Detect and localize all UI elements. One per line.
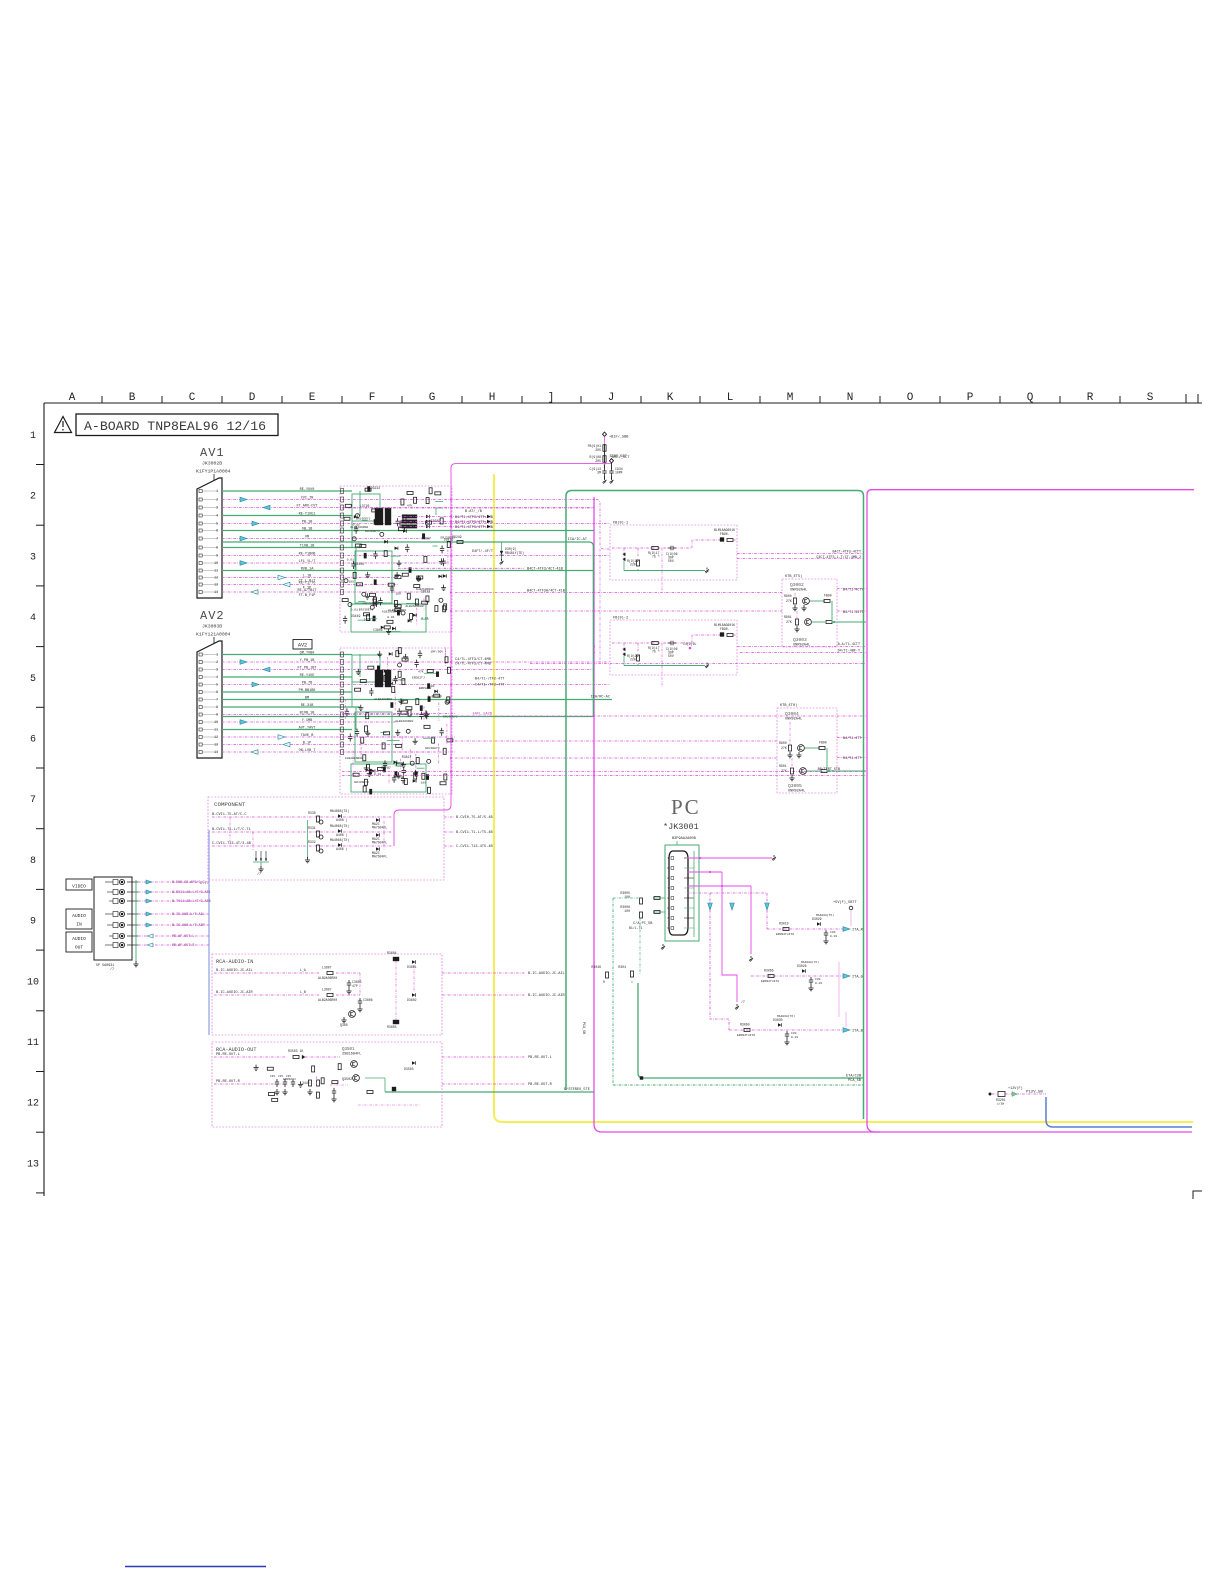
svg-text:R332: R332	[308, 840, 316, 844]
svg-text:OB_1B: OB_1B	[302, 527, 313, 531]
svg-text:ICA/IC-AT: ICA/IC-AT	[568, 537, 588, 542]
svg-text:C3823: C3823	[421, 589, 431, 593]
svg-text:D3106: D3106	[354, 562, 364, 566]
svg-text:9: 9	[216, 554, 218, 558]
svg-text:P12V_5B: P12V_5B	[1026, 1091, 1043, 1095]
svg-text:R331: R331	[308, 826, 316, 830]
svg-text:L_A: L_A	[300, 968, 306, 972]
svg-text:4: 4	[216, 675, 218, 679]
svg-text:F: F	[369, 392, 376, 404]
svg-text:205: 205	[595, 448, 601, 452]
svg-text:ERDS2TJ: ERDS2TJ	[283, 1078, 296, 1081]
svg-text:D3602: D3602	[407, 998, 417, 1002]
svg-text:CVI_IN: CVI_IN	[301, 496, 314, 500]
svg-text:B-TY11-AB-L/T/C-ATB: B-TY11-AB-L/T/C-ATB	[172, 899, 211, 904]
svg-text:PC: PC	[671, 795, 701, 819]
svg-text:27K: 27K	[781, 769, 787, 773]
svg-text:C3606: C3606	[363, 998, 373, 1002]
svg-text:0.01: 0.01	[815, 982, 822, 985]
svg-text:D3503: D3503	[404, 1067, 414, 1071]
svg-text:PB_1B: PB_1B	[302, 520, 313, 524]
svg-text:B-CVI1-T1-L/T/C-T1: B-CVI1-T1-L/T/C-T1	[212, 827, 251, 832]
svg-text:B.AT/_/B: B.AT/_/B	[465, 509, 482, 514]
svg-text:D3029: D3029	[812, 917, 822, 921]
svg-text:13: 13	[214, 743, 218, 747]
svg-text:/7: /7	[741, 1000, 745, 1004]
svg-text:+12V(F): +12V(F)	[1008, 1086, 1023, 1091]
svg-text:IN: IN	[76, 922, 82, 928]
svg-text:K1FY1P1A0004: K1FY1P1A0004	[196, 469, 231, 475]
svg-text:50V: 50V	[668, 559, 674, 563]
svg-text:PB-RE-OUT-L: PB-RE-OUT-L	[216, 1053, 240, 1057]
svg-text:3: 3	[30, 552, 36, 563]
svg-text:0.01: 0.01	[830, 935, 837, 938]
svg-text:3: 3	[667, 897, 669, 900]
svg-text:ERJ3GEYJ: ERJ3GEYJ	[365, 530, 380, 533]
svg-text:A406 |: A406 |	[336, 833, 348, 837]
svg-text:D3449: D3449	[351, 614, 361, 618]
svg-text:R900: R900	[784, 594, 792, 598]
svg-text:Q3003: Q3003	[793, 637, 807, 643]
svg-text:1MF/50V: 1MF/50V	[431, 649, 444, 653]
svg-text:FB90.: FB90.	[720, 627, 730, 631]
svg-text:JK3003B: JK3003B	[202, 624, 222, 630]
svg-text:D: D	[249, 392, 256, 404]
svg-text:ITA_R: ITA_R	[852, 929, 864, 933]
svg-text:1: 1	[216, 489, 218, 493]
svg-text:B-IC-AUDIO-JC-AIL: B-IC-AUDIO-JC-AIL	[528, 972, 565, 976]
svg-text:PB-RE-OUT-R: PB-RE-OUT-R	[216, 1080, 241, 1084]
svg-text:L3442: L3442	[300, 1081, 310, 1085]
svg-text:MA4068(TX): MA4068(TX)	[330, 824, 349, 828]
svg-text:Y.1MB: Y.1MB	[302, 719, 313, 723]
svg-text:AUDIO: AUDIO	[72, 936, 86, 942]
svg-text:S: S	[1147, 392, 1154, 404]
svg-text:100: 100	[624, 909, 630, 913]
svg-text:11: 11	[214, 569, 218, 573]
svg-text:COMPONENT: COMPONENT	[214, 801, 246, 808]
svg-text:KTB_ET0): KTB_ET0)	[780, 703, 797, 708]
svg-text:FT.B_F1P: FT.B_F1P	[299, 594, 316, 598]
svg-text:B: B	[129, 392, 136, 404]
svg-text:PB-RE-OUT-R: PB-RE-OUT-R	[528, 1083, 553, 1087]
svg-text:+5V(F)_5BTT: +5V(F)_5BTT	[833, 900, 858, 905]
svg-text:L3726: L3726	[360, 504, 370, 508]
svg-text:9: 9	[216, 713, 218, 717]
svg-text:R901: R901	[779, 764, 787, 768]
svg-text:100: 100	[395, 592, 401, 595]
svg-text:B-IC-AUB-L/T-AIL: B-IC-AUB-L/T-AIL	[172, 912, 205, 917]
svg-text:14: 14	[214, 590, 218, 594]
svg-text:R3249: R3249	[452, 535, 462, 539]
svg-text:MA7S04FL: MA7S04FL	[372, 826, 387, 830]
svg-text:ICA/RC-AC: ICA/RC-AC	[591, 695, 610, 700]
svg-text:11: 11	[27, 1038, 39, 1049]
svg-text:R3707: R3707	[381, 766, 391, 770]
svg-text:*JK3001: *JK3001	[663, 822, 699, 832]
svg-text:RE-A/TB1T: RE-A/TB1T	[298, 588, 317, 593]
svg-text:B1/L.T1: B1/L.T1	[629, 926, 642, 930]
svg-text:75 ^: 75 ^	[652, 555, 660, 559]
svg-text:Q3005: Q3005	[788, 783, 802, 789]
svg-text:ERDS2TJ470: ERDS2TJ470	[776, 933, 794, 936]
svg-text:LF1_YL/T: LF1_YL/T	[299, 559, 316, 564]
svg-text:ALB2A06R00: ALB2A06R00	[345, 757, 363, 760]
svg-text:1/2W: 1/2W	[997, 1102, 1004, 1106]
svg-text:AV2: AV2	[298, 643, 307, 649]
svg-text:C30: C30	[830, 931, 836, 934]
svg-text:12: 12	[214, 735, 218, 739]
svg-text:9: 9	[667, 927, 669, 930]
svg-text:UNR92A4L: UNR92A4L	[790, 589, 807, 593]
svg-text:RE-Y1UE: RE-Y1UE	[300, 674, 315, 678]
svg-text:/7: /7	[110, 967, 114, 972]
svg-text:B4/T1-/TF2-4TT: B4/T1-/TF2-4TT	[475, 677, 504, 682]
svg-text:8: 8	[216, 546, 218, 550]
svg-text:M: M	[787, 392, 794, 404]
svg-text:R3050: R3050	[740, 1023, 750, 1027]
svg-text:RE-Y1/TO: RE-Y1/TO	[299, 580, 316, 585]
svg-text:100: 100	[429, 685, 435, 688]
svg-text:ALB2A06R00: ALB2A06R00	[395, 720, 413, 723]
svg-text:PB-RE-OUT-L: PB-RE-OUT-L	[528, 1056, 552, 1060]
svg-text:0.01: 0.01	[347, 559, 354, 562]
svg-text:5: 5	[30, 674, 36, 685]
svg-text:0.01: 0.01	[791, 1036, 798, 1039]
svg-text:PCA_5B: PCA_5B	[848, 1079, 862, 1083]
svg-text:PB_7B: PB_7B	[302, 681, 313, 685]
svg-text:205: 205	[595, 459, 601, 463]
svg-text:H: H	[489, 392, 496, 404]
svg-text:4: 4	[667, 917, 669, 920]
svg-text:0.01: 0.01	[351, 608, 358, 611]
svg-text:R3019: R3019	[779, 922, 789, 926]
svg-text:0: 0	[603, 980, 605, 984]
svg-text:11: 11	[214, 728, 218, 732]
svg-text:B-IC-AUDIO-JC-AIR: B-IC-AUDIO-JC-AIR	[528, 994, 566, 998]
svg-text:RE-Y1BOB: RE-Y1BOB	[299, 552, 316, 556]
svg-text:MA4068(TX): MA4068(TX)	[816, 913, 834, 917]
svg-text:2: 2	[30, 492, 36, 503]
svg-text:3M: 3M	[597, 471, 601, 475]
svg-text:Q360: Q360	[340, 1023, 348, 1027]
svg-text:B3P9AA2A00B: B3P9AA2A00B	[672, 837, 697, 841]
svg-text:AV2: AV2	[200, 609, 225, 623]
svg-text:MA4068(TX): MA4068(TX)	[777, 1014, 795, 1018]
svg-text:B4CT-4TF3/4CT-41B: B4CT-4TF3/4CT-41B	[527, 567, 563, 572]
svg-text:C4/TL-4TF3/CT-4MB: C4/TL-4TF3/CT-4MB	[455, 662, 491, 667]
svg-text:UNR92A4L: UNR92A4L	[793, 644, 810, 648]
svg-text:10MF: 10MF	[615, 471, 623, 475]
svg-text:D3222: D3222	[371, 486, 381, 490]
svg-text:/7: /7	[257, 872, 261, 877]
svg-text:AV1: AV1	[200, 446, 225, 460]
svg-text:8: 8	[216, 705, 218, 709]
svg-text:UNR92A4L: UNR92A4L	[788, 790, 805, 794]
svg-text:50V: 50V	[668, 654, 674, 658]
svg-text:R3046: R3046	[591, 965, 601, 969]
svg-text:L_1B: L_1B	[303, 574, 311, 578]
svg-text:14: 14	[214, 750, 218, 754]
svg-text:FB(9)-2: FB(9)-2	[613, 616, 628, 621]
svg-text:4: 4	[216, 514, 218, 518]
svg-text:PCA_5B: PCA_5B	[581, 1022, 585, 1034]
svg-text:D3030: D3030	[773, 1018, 783, 1022]
svg-text:Q3501: Q3501	[342, 1048, 355, 1052]
svg-text:C-CVI1-T13-4T/3-4B: C-CVI1-T13-4T/3-4B	[212, 841, 252, 846]
svg-text:Q: Q	[1027, 392, 1034, 404]
svg-text:K1FY121A0004: K1FY121A0004	[196, 632, 231, 638]
svg-text:10: 10	[214, 561, 218, 565]
svg-text:ALB2A06R00: ALB2A06R00	[318, 976, 337, 980]
svg-text:B4CT-4TF3-4CTT: B4CT-4TF3-4CTT	[833, 551, 862, 555]
svg-text:ITA_G: ITA_G	[852, 976, 863, 980]
svg-text:100: 100	[349, 580, 355, 583]
svg-text:ETA/C2B: ETA/C2B	[846, 1074, 862, 1079]
svg-text:A406 |: A406 |	[336, 847, 348, 851]
svg-text:C4/TL-4TF3/CT-4MB: C4/TL-4TF3/CT-4MB	[455, 657, 491, 662]
svg-text:C: C	[189, 392, 196, 404]
svg-text:KTB_ET5): KTB_ET5)	[785, 574, 802, 579]
svg-text:K: K	[667, 392, 674, 404]
svg-text:R3503 1K: R3503 1K	[288, 1049, 303, 1053]
svg-text:7: 7	[216, 698, 218, 702]
svg-text:VIDEO: VIDEO	[72, 884, 86, 890]
svg-text:R3605: R3605	[387, 1025, 397, 1029]
svg-text:BM: BM	[305, 696, 309, 700]
svg-text:FT.PB_1BT: FT.PB_1BT	[298, 666, 317, 670]
svg-text:+B1F/_5BB: +B1F/_5BB	[609, 435, 629, 440]
svg-text:PB-AF-OUT-L: PB-AF-OUT-L	[172, 935, 194, 939]
svg-text:5: 5	[216, 683, 218, 687]
svg-text:B1OB_1B: B1OB_1B	[300, 711, 315, 715]
svg-text:E/STEREO_5TE: E/STEREO_5TE	[564, 1087, 590, 1092]
svg-text:8: 8	[30, 856, 36, 867]
svg-text:C4/T1-/TF2-4TT: C4/T1-/TF2-4TT	[475, 683, 504, 688]
svg-text:R330: R330	[308, 811, 316, 815]
svg-text:A-BOARD TNP8EAL96 12/16: A-BOARD TNP8EAL96 12/16	[84, 419, 266, 434]
svg-text:ALB2A06R00: ALB2A06R00	[318, 998, 337, 1002]
svg-text:RB481Y(TE): RB481Y(TE)	[505, 551, 524, 555]
svg-text:D3601: D3601	[407, 965, 417, 969]
svg-text:ERJ3GEYJ: ERJ3GEYJ	[425, 747, 440, 750]
svg-text:MA7S04FL: MA7S04FL	[372, 855, 387, 859]
svg-text:D3026: D3026	[797, 964, 807, 968]
svg-text:T1OB_1B: T1OB_1B	[300, 544, 315, 548]
svg-text:D4FT/-4F/T: D4FT/-4F/T	[472, 549, 493, 554]
svg-text:BLM18AG601K: BLM18AG601K	[714, 623, 735, 627]
svg-text:2: 2	[216, 660, 218, 664]
svg-text:L: L	[727, 392, 734, 404]
svg-text:TAVE_B: TAVE_B	[301, 734, 314, 738]
svg-text:27K: 27K	[786, 620, 792, 624]
svg-text:4: 4	[30, 613, 36, 624]
svg-text:5: 5	[216, 522, 218, 526]
svg-text:R900: R900	[779, 741, 787, 745]
svg-text:AVT_TAVT: AVT_TAVT	[299, 726, 316, 730]
svg-text:O: O	[907, 392, 914, 404]
svg-text:1: 1	[667, 857, 669, 860]
svg-text:12: 12	[214, 576, 218, 580]
svg-text:47P: 47P	[352, 984, 358, 988]
svg-text:ALB2A06R00: ALB2A06R00	[374, 698, 392, 701]
svg-text:N: N	[847, 392, 854, 404]
svg-text:ON-LVB_T: ON-LVB_T	[299, 749, 316, 753]
svg-text:C4CT-4TF3.L.T/CT-4MB-2: C4CT-4TF3.L.T/CT-4MB-2	[816, 555, 861, 560]
svg-text:R3817: R3817	[402, 755, 412, 759]
svg-text:0.01: 0.01	[353, 524, 360, 527]
svg-text:2: 2	[216, 498, 218, 502]
svg-text:ALB2A06R00: ALB2A06R00	[405, 605, 423, 608]
svg-text:FB90.: FB90.	[720, 532, 730, 536]
svg-text:2: 2	[667, 877, 669, 880]
svg-text:R: R	[1087, 392, 1094, 404]
svg-text:B-IC-AUDIO-JC-AIR: B-IC-AUDIO-JC-AIR	[216, 991, 254, 995]
svg-text:0.01: 0.01	[387, 616, 394, 619]
svg-text:G: G	[429, 392, 436, 404]
svg-text:B4/T1-4TT: B4/T1-4TT	[843, 736, 861, 741]
svg-text:ERJ3GEYJ: ERJ3GEYJ	[354, 781, 369, 784]
svg-text:PB-AF-OUT-R: PB-AF-OUT-R	[172, 944, 194, 948]
svg-text:AUDIO: AUDIO	[72, 913, 86, 919]
svg-text:ALB2A06R00: ALB2A06R00	[382, 611, 400, 614]
svg-text:7: 7	[30, 795, 36, 806]
svg-text:10: 10	[27, 977, 39, 988]
svg-text:R3604: R3604	[387, 951, 397, 955]
svg-text:B-IC-AUDIO-JC-AIL: B-IC-AUDIO-JC-AIL	[216, 969, 253, 973]
svg-text:B-CVI1-75-AT/C-C: B-CVI1-75-AT/C-C	[212, 812, 247, 817]
svg-text:1: 1	[216, 653, 218, 657]
svg-text:C35: C35	[270, 1075, 275, 1078]
svg-text:ITA_B: ITA_B	[852, 1030, 864, 1034]
svg-text:12: 12	[27, 1099, 39, 1110]
svg-text:3: 3	[216, 668, 218, 672]
svg-text:RVB_1A: RVB_1A	[301, 567, 315, 571]
svg-text:A: A	[69, 392, 76, 404]
svg-text:6: 6	[216, 690, 218, 694]
svg-text:27K: 27K	[786, 599, 792, 603]
svg-text:6: 6	[667, 867, 669, 870]
svg-text:13: 13	[214, 583, 218, 587]
svg-text:MA7S04FL: MA7S04FL	[372, 841, 387, 845]
svg-text:L_B: L_B	[300, 990, 306, 994]
svg-text:B-CVI0-75-AT/5-4B: B-CVI0-75-AT/5-4B	[456, 815, 494, 820]
svg-text:220: 220	[630, 658, 636, 662]
svg-text:Q3502: Q3502	[342, 1078, 352, 1082]
svg-text:6: 6	[216, 529, 218, 533]
svg-text:75 ^: 75 ^	[652, 650, 660, 654]
svg-text:J: J	[608, 392, 615, 404]
svg-text:B-DUB-CB-APC/C-C: B-DUB-CB-APC/C-C	[172, 880, 205, 885]
svg-text:OUT: OUT	[75, 945, 84, 951]
svg-text:C30: C30	[791, 1032, 797, 1035]
svg-text:MA4068(TX): MA4068(TX)	[330, 838, 349, 842]
svg-text:UNR92A4L: UNR92A4L	[785, 718, 802, 722]
svg-text:ERDS2TJ: ERDS2TJ	[412, 676, 425, 679]
svg-text:6: 6	[30, 735, 36, 746]
svg-text:B.A/T1-4CTT: B.A/T1-4CTT	[838, 642, 860, 647]
svg-text:MA4068(TX): MA4068(TX)	[330, 809, 349, 813]
svg-text:L3607: L3607	[322, 966, 332, 970]
svg-text:FB90: FB90	[819, 741, 827, 745]
svg-text:RCA-AUDIO-IN: RCA-AUDIO-IN	[216, 959, 253, 965]
svg-text:13: 13	[27, 1159, 39, 1170]
svg-text:B-BYI1-AB-L/T/C-AT1: B-BYI1-AB-L/T/C-AT1	[172, 890, 211, 895]
svg-text:B-CVI1-T1-L/T5-4B: B-CVI1-T1-L/T5-4B	[456, 830, 494, 835]
svg-text:Q3002: Q3002	[790, 582, 804, 588]
svg-text:R901: R901	[784, 615, 792, 619]
svg-text:ERDS2TJ470: ERDS2TJ470	[761, 980, 779, 983]
svg-text:RE-Y1UE1: RE-Y1UE1	[299, 512, 316, 516]
svg-text:ERJ3GEYJ: ERJ3GEYJ	[359, 609, 374, 612]
svg-text:1MF/50V: 1MF/50V	[392, 678, 405, 682]
svg-text:10: 10	[214, 720, 218, 724]
svg-text:1: 1	[30, 431, 36, 442]
svg-text:B_1P: B_1P	[303, 741, 311, 745]
svg-text:B-IC-AUB-L/T-AIR: B-IC-AUB-L/T-AIR	[172, 923, 205, 928]
svg-text:47K: 47K	[418, 670, 424, 673]
svg-text:RE-YUV0: RE-YUV0	[300, 488, 315, 492]
svg-text:220: 220	[630, 563, 636, 567]
svg-text:E: E	[309, 392, 316, 404]
svg-text:2SB1694FL: 2SB1694FL	[342, 1053, 361, 1057]
svg-text:8: 8	[667, 907, 669, 910]
svg-text:R3201: R3201	[996, 1098, 1006, 1102]
svg-text:C30: C30	[815, 978, 821, 981]
svg-text:47K: 47K	[407, 505, 413, 508]
svg-text:MA4068(TX): MA4068(TX)	[801, 960, 819, 964]
svg-text:27K: 27K	[781, 746, 787, 750]
svg-text:FB(9)-1: FB(9)-1	[613, 521, 628, 526]
svg-text:RE-31B: RE-31B	[301, 704, 314, 708]
svg-text:3: 3	[216, 506, 218, 510]
svg-text:L3607: L3607	[322, 988, 332, 992]
svg-text:QM_TVB0: QM_TVB0	[300, 651, 315, 655]
svg-text:BLM18AG601K: BLM18AG601K	[714, 528, 735, 532]
svg-text:P: P	[967, 392, 974, 404]
svg-text:R3066: R3066	[764, 969, 774, 973]
svg-text:C-CVI1-T13-4T5-4B: C-CVI1-T13-4T5-4B	[456, 845, 494, 849]
svg-text:7: 7	[667, 887, 669, 890]
svg-text:C4(9)6L: C4(9)6L	[683, 642, 696, 646]
svg-text:100: 100	[624, 895, 630, 899]
svg-text:JK3002B: JK3002B	[202, 461, 222, 467]
svg-text:Q3004: Q3004	[785, 711, 799, 717]
svg-text:A406 |: A406 |	[336, 818, 348, 822]
svg-text:ERDS2TJ470: ERDS2TJ470	[737, 1034, 755, 1037]
svg-text:100: 100	[421, 781, 427, 784]
svg-text:9: 9	[30, 917, 36, 928]
svg-text:7: 7	[216, 537, 218, 541]
svg-text:STBF_5BT: STBF_5BT	[610, 455, 628, 459]
svg-text:FB90: FB90	[824, 594, 832, 598]
svg-text:VM: VM	[305, 535, 309, 539]
svg-text:R304: R304	[618, 965, 626, 969]
svg-text:D4/T1-4TT: D4/T1-4TT	[843, 756, 861, 761]
svg-text:]: ]	[548, 392, 555, 404]
svg-text:D4/T1-4BF-T: D4/T1-4BF-T	[838, 649, 860, 654]
svg-text:Y.PB_1B: Y.PB_1B	[300, 659, 315, 663]
svg-text:PM-BB1B0: PM-BB1B0	[299, 689, 316, 693]
svg-text:FT.ARV-CVT: FT.ARV-CVT	[296, 504, 317, 508]
